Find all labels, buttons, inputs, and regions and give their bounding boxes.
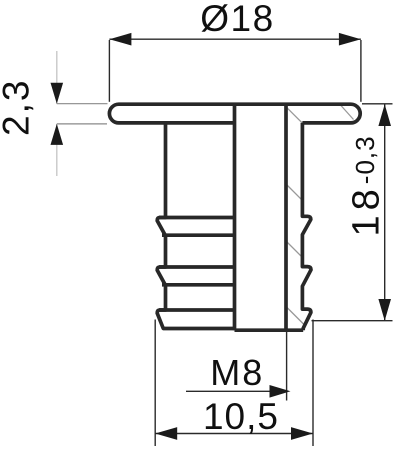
thick part outline [109, 104, 360, 330]
dia18 extension left [108, 40, 110, 102]
thin dimension and extension lines [109, 39, 392, 446]
2,3 arrow top [51, 83, 64, 104]
bottom edge of sectioned side [235, 328, 304, 332]
thread hole wall [284, 104, 288, 330]
18-0,3 upper extension [362, 103, 393, 105]
10,5 extension right [312, 320, 314, 447]
18-0,3 dimension line [384, 104, 386, 321]
10,5 dimension line [155, 433, 313, 435]
dia18 extension right [360, 40, 362, 102]
10,5 arrow right [291, 427, 313, 440]
dia18 arrow left [109, 33, 131, 46]
2,3 light arrow shafts [56, 51, 58, 176]
2,3 arrow bottom [51, 124, 64, 145]
rib2 bottom edge [162, 283, 235, 287]
rib2 top edge [159, 265, 235, 269]
M8 arrow [270, 385, 291, 398]
M8 dimension line [186, 390, 288, 392]
hatch section lines [286, 105, 354, 324]
arrowheads [51, 33, 392, 440]
flange capsule outline [109, 104, 360, 123]
rib1 top edge [159, 216, 235, 220]
2,3 upper arrow shaft [56, 51, 58, 104]
right sectioned outer wall with rib bumps [302, 123, 311, 330]
18-0,3 arrow bottom [378, 299, 391, 321]
10,5 extension left [154, 320, 156, 447]
svg-text:10,5: 10,5 [203, 396, 279, 437]
2,3 extension lines [57, 104, 108, 124]
svg-text:M8: M8 [210, 352, 264, 393]
centre axis / section boundary line [233, 104, 237, 330]
2,3 lower extension [57, 123, 107, 125]
10,5 arrow left [155, 427, 177, 440]
dia18 dimension line [109, 38, 361, 40]
2,3 upper extension [57, 103, 108, 105]
svg-text:2,3: 2,3 [0, 79, 36, 136]
svg-text:Ø18: Ø18 [200, 0, 274, 39]
M8 extension line [286, 331, 288, 401]
18-0,3 lower extension [312, 320, 393, 322]
rib3 top edge [159, 308, 235, 312]
rib1 bottom edge [162, 233, 235, 237]
dia18 arrow right [339, 33, 361, 46]
2,3 lower arrow shaft [56, 124, 58, 176]
left outer profile with barb ribs [157, 123, 234, 329]
18-0,3 arrow top [378, 104, 391, 126]
